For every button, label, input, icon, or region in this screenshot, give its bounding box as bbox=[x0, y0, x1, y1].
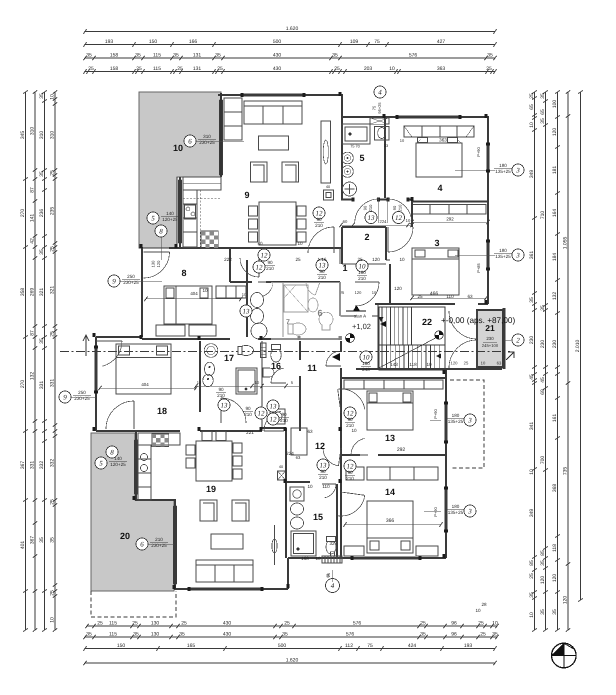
ref 13 bath 17 bbox=[218, 399, 230, 411]
svg-text:1.055: 1.055 bbox=[563, 237, 569, 250]
wall room 3 south / stair north bbox=[375, 303, 455, 305]
svg-text:35: 35 bbox=[39, 93, 45, 99]
bidet bath 7 bbox=[308, 298, 318, 312]
sinks room 8 ensuite bbox=[251, 293, 264, 308]
svg-text:235: 235 bbox=[50, 207, 56, 216]
svg-text:404: 404 bbox=[141, 382, 149, 387]
svg-text:16: 16 bbox=[271, 361, 281, 371]
svg-text:90: 90 bbox=[347, 470, 353, 475]
ref 8 kitchen bbox=[155, 225, 167, 237]
svg-text:120: 120 bbox=[372, 257, 380, 262]
svg-text:363: 363 bbox=[437, 66, 446, 72]
svg-text:135+25: 135+25 bbox=[495, 169, 511, 174]
ref 12 corridor top bbox=[393, 212, 405, 224]
wardrobe room 8 bbox=[216, 286, 246, 298]
svg-text:21: 21 bbox=[485, 323, 495, 333]
window room 13 east bbox=[444, 404, 447, 442]
door room 18 sw / terrace bbox=[133, 401, 135, 429]
right dimension column 1.055/735 bbox=[567, 92, 569, 630]
exterior wall east (rooms 13,14) bbox=[445, 369, 447, 558]
svg-text:1: 1 bbox=[342, 263, 347, 273]
svg-text:6: 6 bbox=[140, 540, 144, 548]
wall bath 17 west bbox=[199, 341, 201, 412]
svg-text:224: 224 bbox=[380, 219, 388, 224]
door room 19 bbox=[264, 430, 284, 432]
svg-text:193: 193 bbox=[105, 39, 114, 45]
wall room 9 / room 8 divider bbox=[169, 247, 342, 249]
svg-text:12: 12 bbox=[256, 263, 264, 271]
svg-text:40: 40 bbox=[257, 241, 263, 246]
vent shaft bottom bbox=[322, 556, 342, 563]
arrow west entry bbox=[83, 335, 89, 356]
bed room 8 bbox=[164, 286, 212, 324]
wall corridor 1 east piece bbox=[408, 199, 412, 201]
svg-text:10: 10 bbox=[492, 621, 498, 627]
interior dims bbox=[202, 241, 473, 561]
svg-text:10: 10 bbox=[255, 380, 260, 385]
ref 3 east room 13 bbox=[464, 414, 476, 426]
svg-text:13: 13 bbox=[368, 214, 376, 222]
svg-text:269: 269 bbox=[30, 288, 36, 297]
svg-text:367: 367 bbox=[30, 536, 36, 545]
svg-text:63: 63 bbox=[307, 429, 313, 434]
kitchen sink room 19 bbox=[140, 453, 147, 460]
svg-text:210: 210 bbox=[368, 204, 373, 211]
wall rooms 8 bath east bbox=[246, 260, 248, 337]
svg-text:35: 35 bbox=[282, 632, 288, 638]
svg-text:25: 25 bbox=[97, 621, 103, 627]
wall rooms 13/14 north (y=378) bbox=[341, 377, 446, 379]
svg-text:367: 367 bbox=[20, 461, 26, 470]
terrace room 10 (gray) bbox=[139, 92, 221, 248]
wall stair west bbox=[377, 304, 379, 370]
wall piers bbox=[139, 335, 142, 339]
svg-text:131: 131 bbox=[193, 53, 202, 59]
wall corridor 11 east bbox=[340, 341, 342, 352]
svg-text:5: 5 bbox=[151, 214, 155, 222]
svg-text:120: 120 bbox=[394, 286, 402, 291]
svg-text:9: 9 bbox=[63, 393, 67, 401]
svg-text:10: 10 bbox=[297, 241, 303, 246]
svg-text:25: 25 bbox=[88, 66, 94, 72]
ref 5 kitchen bbox=[147, 212, 159, 224]
window room 4 north bbox=[398, 115, 460, 118]
svg-text:28: 28 bbox=[481, 602, 487, 607]
door room 3 bbox=[387, 227, 389, 252]
ref 10 corridor 1 bbox=[356, 260, 368, 272]
svg-text:3: 3 bbox=[515, 251, 520, 259]
svg-text:210: 210 bbox=[318, 275, 326, 280]
svg-text:165: 165 bbox=[187, 643, 196, 649]
svg-text:+-0,00 (aps. +87,00): +-0,00 (aps. +87,00) bbox=[441, 316, 515, 325]
svg-text:576: 576 bbox=[353, 621, 362, 627]
svg-text:17: 17 bbox=[224, 353, 234, 363]
svg-text:230: 230 bbox=[529, 336, 535, 345]
top dimension row 10/25/158/25/115/25/131/25/430/25/203/363/25 bbox=[85, 71, 495, 73]
svg-text:75: 75 bbox=[372, 105, 377, 110]
drain symbol b bbox=[435, 331, 443, 339]
svg-text:35: 35 bbox=[135, 53, 141, 59]
svg-text:85: 85 bbox=[540, 550, 546, 556]
svg-text:P+90: P+90 bbox=[433, 506, 438, 516]
svg-text:120: 120 bbox=[156, 260, 161, 267]
stair double door bbox=[476, 311, 478, 339]
wardrobe room 13 bbox=[344, 380, 443, 389]
svg-text:10: 10 bbox=[529, 612, 535, 618]
ref 8 kitchen 19 bbox=[106, 446, 118, 458]
exit arrow bbox=[506, 352, 514, 360]
svg-text:80: 80 bbox=[320, 469, 326, 474]
svg-text:25: 25 bbox=[295, 257, 301, 262]
svg-text:250: 250 bbox=[127, 274, 135, 279]
shaft tiles 16/17 bbox=[261, 343, 267, 358]
svg-text:158: 158 bbox=[110, 66, 119, 72]
exterior wall north (room 18) bbox=[96, 336, 142, 338]
svg-text:331: 331 bbox=[50, 379, 56, 388]
svg-text:361: 361 bbox=[529, 251, 535, 260]
toilet bath 7 bbox=[290, 323, 306, 335]
wall room 8 east segment bbox=[229, 247, 231, 282]
door room 12 entry bbox=[339, 448, 342, 466]
wardrobe room 4 bbox=[404, 126, 474, 137]
elevator shaft room 21 (gray) bbox=[503, 308, 506, 369]
svg-text:35: 35 bbox=[529, 297, 535, 303]
svg-text:35: 35 bbox=[39, 249, 45, 255]
svg-text:2: 2 bbox=[516, 336, 520, 344]
wall bath 15 west bbox=[285, 481, 287, 558]
shelf room 9 top left bbox=[224, 98, 242, 140]
window room 18 west bbox=[94, 348, 97, 392]
right overall dimension 2.010 bbox=[580, 92, 582, 600]
ref 10 lobby bbox=[360, 351, 372, 363]
svg-text:25: 25 bbox=[529, 93, 535, 99]
left dimension column 310/87/141/42/269/87/132/331 bbox=[34, 92, 36, 630]
section line A-A bbox=[60, 351, 510, 353]
wall rooms 13/14 divider bbox=[341, 454, 360, 456]
svg-text:270: 270 bbox=[20, 380, 26, 389]
door room 8 ensuite bbox=[258, 258, 260, 277]
door stair lobby / corridor 1 bbox=[355, 281, 379, 283]
svg-text:358: 358 bbox=[20, 288, 26, 297]
level marker triangle bbox=[353, 305, 360, 311]
sink bath 16 bbox=[263, 368, 274, 377]
door room 1/9 bbox=[333, 227, 335, 253]
door room 18 nw bbox=[96, 340, 122, 342]
svg-text:143: 143 bbox=[390, 362, 398, 367]
svg-text:13: 13 bbox=[221, 401, 229, 409]
svg-text:35: 35 bbox=[39, 171, 45, 177]
svg-text:35: 35 bbox=[215, 53, 221, 59]
svg-text:250: 250 bbox=[78, 390, 86, 395]
svg-text:25: 25 bbox=[50, 499, 56, 505]
vent box corridor 12 bbox=[278, 471, 286, 480]
svg-text:3: 3 bbox=[467, 507, 472, 515]
wall room 9 east / terrace edge bbox=[220, 93, 222, 177]
svg-text:9: 9 bbox=[244, 190, 249, 200]
svg-text:210: 210 bbox=[217, 393, 225, 398]
svg-text:3: 3 bbox=[434, 238, 439, 248]
ref 3 east room 14 bbox=[464, 505, 476, 517]
coffee table room 9 bbox=[259, 136, 289, 150]
ref 13 ensuite 8 bbox=[240, 305, 252, 317]
svg-text:120: 120 bbox=[563, 596, 569, 605]
svg-text:P+85: P+85 bbox=[476, 262, 481, 272]
svg-text:25: 25 bbox=[136, 66, 142, 72]
wall bath 5 east / room 4 west bbox=[384, 117, 386, 198]
kitchen stove room 9 bbox=[185, 205, 196, 219]
svg-text:P+90: P+90 bbox=[476, 146, 481, 156]
whirlpool bath 17 bbox=[204, 344, 218, 358]
svg-text:130: 130 bbox=[151, 621, 160, 627]
bed room 18 bbox=[116, 344, 171, 394]
svg-text:430: 430 bbox=[273, 66, 282, 72]
door corridor 11 entry bbox=[326, 365, 341, 367]
door room 13/14 divider bbox=[351, 454, 368, 456]
svg-text:331: 331 bbox=[30, 461, 36, 470]
svg-text:345: 345 bbox=[20, 131, 26, 140]
svg-text:466: 466 bbox=[430, 291, 439, 297]
ref 12 room 8 bbox=[253, 261, 265, 273]
bed room 13 bbox=[367, 391, 413, 430]
svg-text:19: 19 bbox=[206, 484, 216, 494]
svg-text:45: 45 bbox=[540, 377, 546, 383]
svg-text:132: 132 bbox=[552, 292, 558, 301]
coffee table room 19 bbox=[211, 534, 243, 549]
door bath 15 bbox=[322, 483, 336, 485]
svg-text:22: 22 bbox=[422, 317, 432, 327]
svg-text:112: 112 bbox=[345, 643, 353, 649]
svg-text:366: 366 bbox=[386, 518, 395, 524]
svg-text:210: 210 bbox=[244, 412, 252, 417]
svg-text:150: 150 bbox=[149, 39, 158, 45]
svg-text:stan A: stan A bbox=[354, 314, 366, 319]
svg-text:12: 12 bbox=[270, 415, 278, 423]
svg-text:25: 25 bbox=[478, 621, 484, 627]
svg-text:100: 100 bbox=[358, 270, 366, 275]
wall corridor 12 west bbox=[285, 428, 287, 481]
sofa room 9 bbox=[244, 101, 302, 124]
svg-text:1.16: 1.16 bbox=[318, 257, 327, 262]
svg-text:230: 230 bbox=[540, 340, 546, 349]
svg-text:33: 33 bbox=[384, 144, 388, 148]
svg-text:150: 150 bbox=[117, 643, 126, 649]
svg-text:35: 35 bbox=[39, 537, 45, 543]
svg-text:203: 203 bbox=[364, 66, 373, 72]
svg-text:1.620: 1.620 bbox=[286, 658, 299, 664]
svg-text:332: 332 bbox=[39, 461, 45, 470]
svg-text:10: 10 bbox=[315, 556, 321, 561]
svg-text:180: 180 bbox=[499, 248, 507, 253]
svg-text:10: 10 bbox=[529, 469, 535, 475]
svg-text:210: 210 bbox=[398, 204, 403, 211]
svg-text:292: 292 bbox=[446, 217, 454, 222]
armchair room 9 b bbox=[282, 162, 299, 182]
door bath 7 bbox=[315, 282, 320, 295]
svg-text:236: 236 bbox=[39, 209, 45, 218]
svg-text:90: 90 bbox=[392, 205, 397, 210]
svg-text:161: 161 bbox=[552, 414, 558, 423]
vent shaft room 9 bbox=[324, 190, 334, 200]
svg-text:735: 735 bbox=[563, 467, 569, 476]
svg-text:368: 368 bbox=[552, 484, 558, 493]
closet corridor 12 bbox=[291, 428, 307, 455]
svg-text:349: 349 bbox=[529, 509, 535, 518]
svg-text:210: 210 bbox=[319, 475, 327, 480]
bottom dimension row 35/115/35/130/35/430/35/576/35/96/35 bbox=[85, 636, 497, 638]
ref 3 east room 4 bbox=[512, 164, 524, 176]
ref 6 terrace 10 bbox=[184, 135, 196, 147]
svg-text:10: 10 bbox=[351, 428, 357, 433]
window jamb blocks bbox=[486, 143, 490, 146]
shower bath 6 bbox=[284, 285, 308, 312]
wall room 9 east (x=340) upper bbox=[339, 247, 341, 264]
toilet near 15 bbox=[326, 540, 336, 554]
svg-text:10: 10 bbox=[50, 94, 56, 100]
ref 4 top bbox=[374, 86, 386, 98]
exterior wall east (rooms 4,3) bbox=[487, 116, 489, 304]
wall corridor 1 west bbox=[389, 264, 391, 304]
svg-text:13: 13 bbox=[243, 307, 251, 315]
bench room 8 bbox=[156, 325, 185, 336]
svg-text:90: 90 bbox=[267, 260, 273, 265]
svg-text:245+100: 245+100 bbox=[482, 343, 499, 348]
svg-text:224: 224 bbox=[286, 451, 294, 456]
svg-text:120: 120 bbox=[552, 574, 558, 583]
svg-text:75: 75 bbox=[374, 39, 380, 45]
svg-text:4: 4 bbox=[331, 582, 335, 590]
ref 12 room 9 bbox=[313, 207, 325, 219]
entry arrow apartment A bbox=[380, 321, 386, 327]
svg-text:310: 310 bbox=[39, 131, 45, 140]
svg-text:90: 90 bbox=[281, 412, 287, 417]
svg-text:5: 5 bbox=[359, 153, 364, 163]
closet band room 3 bbox=[412, 205, 486, 215]
svg-text:25: 25 bbox=[50, 170, 56, 176]
svg-text:12: 12 bbox=[261, 251, 269, 259]
svg-text:292: 292 bbox=[397, 447, 406, 453]
svg-text:430: 430 bbox=[223, 632, 232, 638]
svg-text:P+90: P+90 bbox=[433, 408, 438, 418]
svg-text:35: 35 bbox=[492, 632, 498, 638]
right dimension column 100/120/181/164/184/132/230/161/368/118/120 bbox=[557, 92, 559, 630]
door bath 6 bbox=[258, 281, 273, 283]
wall room 2 west bbox=[341, 227, 343, 264]
washer bath 15 bbox=[290, 487, 304, 501]
ref 12 bath 16 bbox=[255, 407, 267, 419]
svg-text:115: 115 bbox=[153, 53, 161, 59]
ref 12 corridor 11 bbox=[267, 413, 279, 425]
svg-text:25: 25 bbox=[464, 361, 469, 366]
glass wall kitchen 9 / terrace bbox=[179, 180, 182, 243]
svg-text:132: 132 bbox=[30, 372, 36, 381]
svg-text:700: 700 bbox=[540, 456, 546, 465]
svg-text:120: 120 bbox=[451, 361, 459, 366]
svg-text:221: 221 bbox=[246, 430, 254, 435]
svg-text:120: 120 bbox=[540, 576, 546, 585]
dining table room 9 bbox=[259, 202, 296, 245]
svg-text:35: 35 bbox=[540, 93, 546, 99]
window room 9 north bbox=[243, 93, 304, 96]
wall baths 16/17 divider bbox=[261, 341, 263, 431]
svg-text:25: 25 bbox=[334, 66, 340, 72]
svg-text:10: 10 bbox=[426, 362, 432, 367]
bottom dimension row 25/115/25/130/25/430/25/576/25/96 bbox=[87, 625, 497, 627]
svg-text:90: 90 bbox=[245, 406, 251, 411]
tv cabinet room 9 bbox=[321, 121, 331, 183]
svg-text:310: 310 bbox=[30, 127, 36, 136]
svg-text:75: 75 bbox=[367, 643, 373, 649]
svg-text:40: 40 bbox=[326, 185, 330, 189]
svg-text:135+25: 135+25 bbox=[448, 419, 464, 424]
svg-text:180: 180 bbox=[452, 413, 460, 418]
ref 13 corridor top bbox=[365, 212, 377, 224]
exterior wall south (room 14) bbox=[288, 557, 446, 559]
drain symbol bbox=[346, 334, 355, 343]
svg-text:96: 96 bbox=[451, 621, 457, 627]
armchairs room 19 bbox=[200, 500, 217, 521]
svg-text:332: 332 bbox=[50, 459, 56, 468]
svg-text:118: 118 bbox=[409, 362, 417, 367]
washer bath 5 bbox=[375, 127, 390, 141]
svg-text:100: 100 bbox=[362, 361, 370, 366]
svg-text:130: 130 bbox=[151, 260, 156, 267]
svg-text:63: 63 bbox=[296, 455, 301, 460]
svg-text:35: 35 bbox=[540, 118, 546, 124]
svg-text:35: 35 bbox=[173, 53, 179, 59]
closet band rooms 13/14 bbox=[367, 467, 438, 480]
left dimension column 345/270/358/270/367/401 bbox=[25, 92, 27, 630]
svg-text:25: 25 bbox=[181, 621, 187, 627]
svg-text:25: 25 bbox=[217, 66, 223, 72]
svg-text:25: 25 bbox=[50, 246, 56, 252]
exterior wall top (rooms 9,5) bbox=[218, 94, 342, 96]
svg-text:60: 60 bbox=[343, 219, 348, 224]
wall lobby y=316 bbox=[340, 315, 356, 317]
svg-text:25: 25 bbox=[480, 632, 486, 638]
kitchen counter room 9 bbox=[183, 177, 221, 190]
svg-text:270: 270 bbox=[20, 209, 26, 218]
ref 9 left bbox=[108, 275, 120, 287]
svg-text:35: 35 bbox=[420, 632, 426, 638]
svg-text:168: 168 bbox=[301, 556, 309, 561]
exterior wall step at bathroom 5 bbox=[341, 94, 343, 117]
wall bath 5 west bbox=[341, 117, 343, 199]
wardrobe room 14 bbox=[344, 546, 364, 556]
svg-text:4: 4 bbox=[437, 183, 442, 193]
svg-text:210: 210 bbox=[358, 276, 366, 281]
svg-text:35: 35 bbox=[552, 609, 558, 615]
wall bath 6/7 west bbox=[282, 282, 284, 337]
armchair room 9 a bbox=[251, 162, 268, 182]
wall corridor 1 / room 3 (x=412) bbox=[411, 199, 413, 227]
svg-text:13: 13 bbox=[385, 433, 395, 443]
dashed balcony right bbox=[450, 380, 484, 468]
dim line room 14 bbox=[345, 524, 441, 526]
toilet bath 17 top bbox=[239, 346, 254, 356]
door room 4 / corridor right bbox=[387, 199, 389, 223]
dim line room 3 bbox=[412, 297, 486, 299]
svg-text:35: 35 bbox=[86, 632, 92, 638]
exterior wall step (room 15) bbox=[287, 558, 289, 589]
glass door room 19 / terrace 20 bbox=[174, 506, 177, 584]
svg-text:180: 180 bbox=[499, 163, 507, 168]
svg-text:115: 115 bbox=[153, 66, 161, 72]
exterior wall top (room 4) bbox=[341, 116, 488, 118]
shower bath 17 bbox=[236, 368, 257, 394]
svg-text:40: 40 bbox=[279, 465, 283, 469]
toilet bath 17 a bbox=[205, 362, 215, 376]
top overall dimension 1.620 bbox=[85, 31, 495, 33]
